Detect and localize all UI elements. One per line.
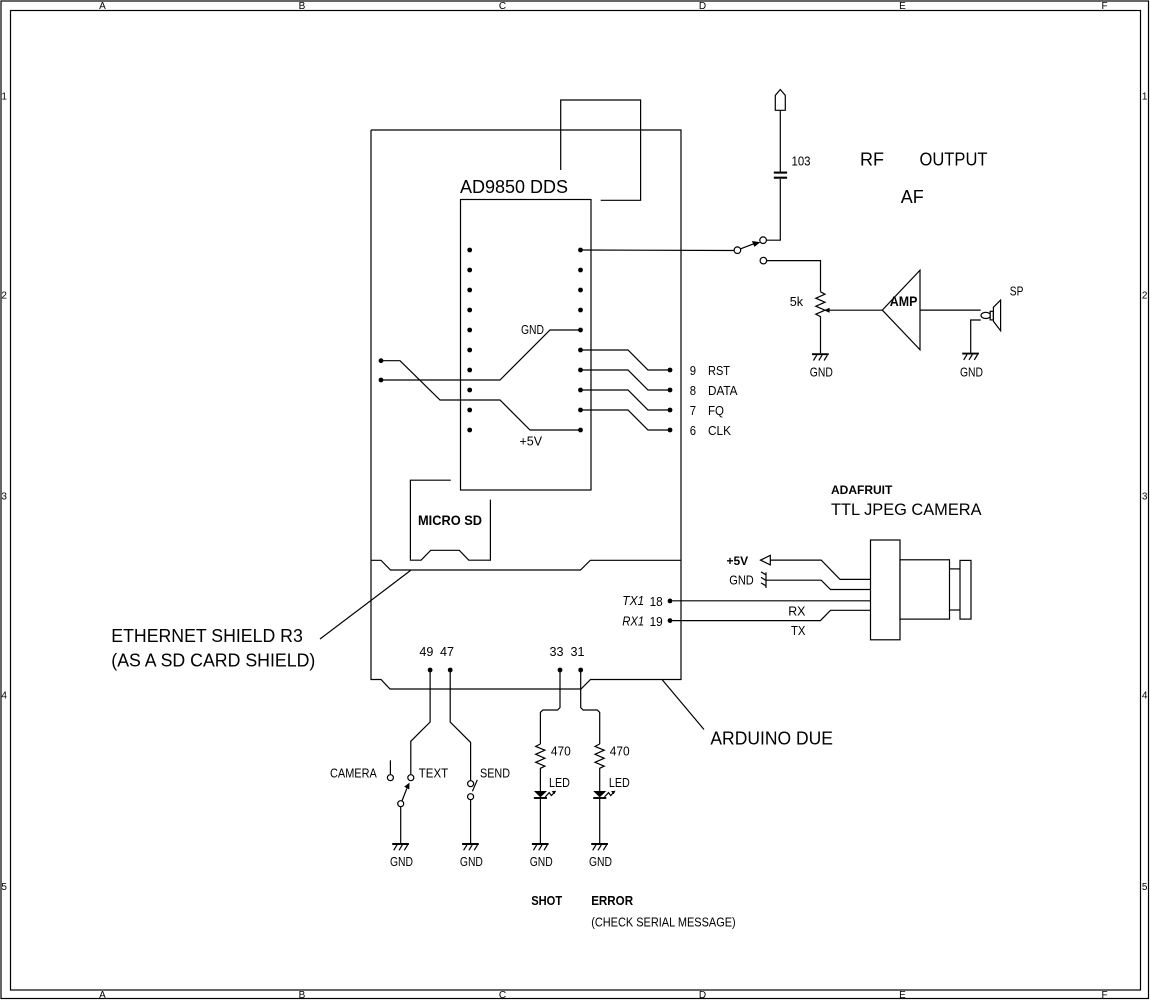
svg-text:470: 470 xyxy=(551,744,571,759)
svg-text:5k: 5k xyxy=(790,294,804,309)
svg-text:3: 3 xyxy=(1,492,7,503)
svg-text:49: 49 xyxy=(419,644,433,659)
svg-text:SHOT: SHOT xyxy=(531,893,562,908)
svg-text:A: A xyxy=(99,1,106,12)
svg-text:31: 31 xyxy=(571,644,585,659)
svg-text:LED: LED xyxy=(609,775,630,790)
svg-text:RF: RF xyxy=(860,150,884,170)
svg-text:4: 4 xyxy=(1142,691,1148,702)
svg-text:5: 5 xyxy=(1142,882,1148,893)
svg-text:CAMERA: CAMERA xyxy=(330,766,377,781)
svg-text:ERROR: ERROR xyxy=(591,893,633,908)
svg-text:D: D xyxy=(699,990,706,1000)
svg-text:ADAFRUIT: ADAFRUIT xyxy=(831,483,893,497)
svg-text:1: 1 xyxy=(1142,92,1148,103)
svg-text:GND: GND xyxy=(460,854,483,869)
svg-text:TX: TX xyxy=(791,623,806,638)
svg-text:(AS A SD CARD SHIELD): (AS A SD CARD SHIELD) xyxy=(111,651,315,671)
svg-text:19: 19 xyxy=(650,614,663,629)
svg-text:B: B xyxy=(299,990,306,1000)
svg-text:GND: GND xyxy=(530,854,553,869)
svg-text:E: E xyxy=(899,990,906,1000)
svg-text:LED: LED xyxy=(549,775,570,790)
svg-text:ARDUINO DUE: ARDUINO DUE xyxy=(710,729,833,749)
svg-text:B: B xyxy=(299,1,306,12)
svg-text:GND: GND xyxy=(810,364,833,379)
svg-text:103: 103 xyxy=(792,154,811,169)
svg-text:D: D xyxy=(699,1,706,12)
svg-text:1: 1 xyxy=(1,92,7,103)
svg-text:TEXT: TEXT xyxy=(419,766,448,781)
svg-text:MICRO SD: MICRO SD xyxy=(418,512,482,528)
svg-text:DATA: DATA xyxy=(708,383,738,398)
svg-text:33: 33 xyxy=(550,644,564,659)
svg-text:2: 2 xyxy=(1142,291,1148,302)
svg-text:GND: GND xyxy=(521,322,544,337)
svg-text:F: F xyxy=(1101,1,1107,12)
svg-text:5: 5 xyxy=(1,882,7,893)
svg-text:GND: GND xyxy=(390,854,413,869)
svg-text:470: 470 xyxy=(610,744,630,759)
svg-text:RST: RST xyxy=(708,363,730,378)
svg-text:3: 3 xyxy=(1142,492,1148,503)
svg-text:E: E xyxy=(899,1,906,12)
svg-text:47: 47 xyxy=(440,644,454,659)
svg-text:8: 8 xyxy=(690,383,696,398)
svg-text:GND: GND xyxy=(960,364,983,379)
svg-text:+5V: +5V xyxy=(520,434,543,449)
svg-text:TTL JPEG CAMERA: TTL JPEG CAMERA xyxy=(831,500,982,519)
svg-text:6: 6 xyxy=(690,423,696,438)
svg-text:C: C xyxy=(499,990,506,1000)
svg-text:A: A xyxy=(99,990,106,1000)
svg-text:RX1: RX1 xyxy=(622,613,644,628)
svg-text:18: 18 xyxy=(650,594,663,609)
svg-text:AF: AF xyxy=(901,187,924,207)
svg-text:TX1: TX1 xyxy=(622,593,644,608)
svg-text:7: 7 xyxy=(690,403,696,418)
svg-text:CLK: CLK xyxy=(708,423,731,438)
svg-text:OUTPUT: OUTPUT xyxy=(920,150,988,170)
svg-text:SEND: SEND xyxy=(480,766,510,781)
svg-text:RX: RX xyxy=(788,604,806,619)
svg-text:SP: SP xyxy=(1010,284,1024,299)
svg-text:F: F xyxy=(1101,990,1107,1000)
svg-text:C: C xyxy=(499,1,506,12)
svg-text:GND: GND xyxy=(729,573,753,588)
svg-text:9: 9 xyxy=(690,363,696,378)
svg-text:AMP: AMP xyxy=(890,293,918,309)
svg-text:ETHERNET SHIELD R3: ETHERNET SHIELD R3 xyxy=(111,626,302,646)
svg-text:AD9850 DDS: AD9850 DDS xyxy=(460,177,568,197)
svg-text:+5V: +5V xyxy=(727,554,749,568)
svg-text:2: 2 xyxy=(1,291,7,302)
svg-text:FQ: FQ xyxy=(708,403,724,418)
svg-text:4: 4 xyxy=(1,691,7,702)
svg-text:GND: GND xyxy=(589,854,612,869)
svg-text:(CHECK SERIAL MESSAGE): (CHECK SERIAL MESSAGE) xyxy=(591,914,736,929)
